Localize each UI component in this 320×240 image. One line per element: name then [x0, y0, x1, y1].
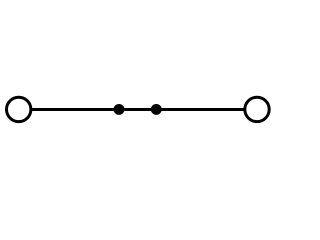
- wire: [31, 108, 245, 111]
- terminal circle left: [7, 97, 31, 121]
- terminal circle right: [245, 97, 269, 121]
- junction dot 1: [114, 104, 125, 115]
- junction dot 2: [151, 104, 162, 115]
